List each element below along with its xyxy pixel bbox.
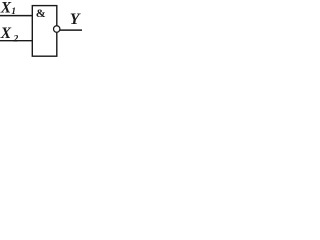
svg-text:Y: Y — [70, 11, 81, 28]
svg-text:X: X — [0, 0, 12, 17]
svg-text:X: X — [0, 25, 12, 42]
svg-text:2: 2 — [13, 35, 19, 45]
svg-text:&: & — [36, 6, 46, 20]
svg-text:1: 1 — [11, 7, 16, 17]
